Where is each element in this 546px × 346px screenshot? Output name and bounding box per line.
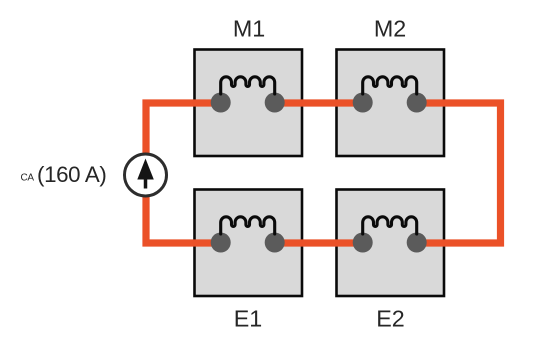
svg-text:M2: M2 (374, 15, 406, 41)
svg-text:E1: E1 (234, 305, 263, 331)
node: M1 left terminal (211, 93, 231, 113)
inductor coil of E1 (221, 217, 275, 234)
inductor coil of M2 (363, 77, 417, 94)
node: M1 right terminal (265, 93, 285, 113)
node: E2 left terminal (353, 233, 373, 253)
inductor coil of M1 (221, 77, 275, 94)
svg-text:M1: M1 (233, 15, 265, 41)
current source CA: circle (125, 154, 167, 196)
machine M1 body (195, 50, 303, 157)
node: E2 right terminal (407, 233, 427, 253)
svg-text:(160 A): (160 A) (37, 162, 106, 187)
machine E1 body (195, 190, 303, 297)
current source CA: arrow stem (144, 178, 148, 189)
wire: E2 to E1 (275, 239, 363, 246)
current source CA: arrow head (137, 159, 154, 180)
node: M2 right terminal (407, 93, 427, 113)
node: E1 left terminal (211, 233, 231, 253)
wire: M2 to E2 (right vertical) (418, 103, 501, 243)
machine M2 body (337, 50, 445, 157)
inductor coil of E2 (363, 217, 417, 234)
node: M2 left terminal (353, 93, 373, 113)
wire: M1 to M2 (275, 99, 363, 106)
node: E1 right terminal (265, 233, 285, 253)
wire: source to M1 (left vertical + top-left horizontal) (146, 103, 221, 243)
machine E2 body (337, 190, 445, 297)
svg-text:E2: E2 (376, 305, 405, 331)
svg-text:CA: CA (21, 173, 35, 184)
